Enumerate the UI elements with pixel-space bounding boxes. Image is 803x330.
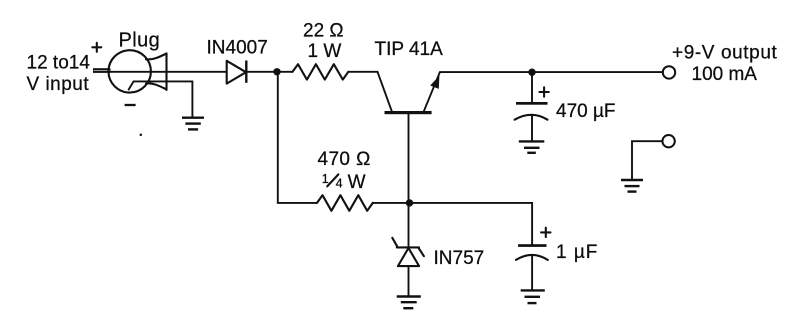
wire: node A down to 470 ohm row [278, 74, 317, 203]
plug plus sign [92, 43, 101, 52]
wire: zener to ground [408, 266, 410, 296]
wire: R1 to Q1 collector [348, 71, 377, 73]
wire: capacitor C1 stem [531, 74, 533, 103]
ground (terminal 2) [621, 180, 643, 192]
svg-text:+9-V output: +9-V output [672, 42, 777, 63]
ground (plug) [182, 118, 204, 130]
svg-text:470 µF: 470 µF [556, 101, 616, 122]
ground (zener) [397, 297, 421, 309]
plug sleeve contact wire to ground [129, 81, 193, 117]
wire: node A to R1 [246, 71, 293, 73]
wire: main input line through plug to diode [109, 71, 227, 73]
wire: terminal 2 to ground [632, 141, 662, 179]
capacitor C2 1uF [516, 244, 548, 260]
svg-text:W: W [348, 172, 366, 193]
plus sign C2 [541, 228, 550, 237]
svg-text:12 to14: 12 to14 [27, 53, 91, 74]
svg-text:4: 4 [336, 176, 343, 190]
wire: C1 to ground [531, 116, 533, 141]
plug minus sign [125, 104, 136, 106]
node C junction dot [406, 199, 413, 206]
plug J1 body [109, 50, 167, 92]
capacitor C1 470uF [515, 102, 548, 120]
svg-text:100 mA: 100 mA [692, 64, 758, 85]
svg-text:22 Ω: 22 Ω [303, 21, 344, 42]
ground (C1) [519, 141, 545, 152]
svg-text:TIP 41A: TIP 41A [375, 39, 444, 60]
svg-text:1 µF: 1 µF [556, 242, 598, 263]
svg-text:IN757: IN757 [434, 248, 485, 269]
stray ink speck [140, 134, 143, 137]
input barrel (thick pin) [93, 68, 111, 73]
resistor R2 470 ohm [317, 195, 373, 211]
wire: R2 to node C and on to C2 [373, 203, 532, 245]
output terminal circle [663, 66, 675, 78]
transistor Q1 TIP 41A [378, 72, 440, 114]
plus sign C1 [539, 87, 548, 96]
svg-text:1: 1 [322, 172, 329, 186]
zener diode D2 IN757 [392, 238, 424, 266]
resistor R1 22 ohm 1 W [293, 64, 349, 79]
node B junction dot (470uF tap) [528, 69, 535, 76]
svg-text:470 Ω: 470 Ω [318, 149, 371, 170]
ground (C2) [521, 290, 545, 303]
svg-text:IN4007: IN4007 [207, 37, 268, 58]
wire: C2 to ground [531, 256, 533, 290]
transistor base wire [408, 114, 410, 203]
wire: emitter to output terminal [440, 71, 663, 73]
wire: node C to zener [408, 203, 410, 247]
svg-text:V input: V input [27, 74, 90, 95]
svg-text:Plug: Plug [119, 29, 161, 51]
second output terminal circle [662, 135, 674, 147]
diode D1 IN4007 [227, 61, 247, 84]
node A junction dot [273, 68, 280, 75]
svg-text:1 W: 1 W [308, 41, 342, 62]
